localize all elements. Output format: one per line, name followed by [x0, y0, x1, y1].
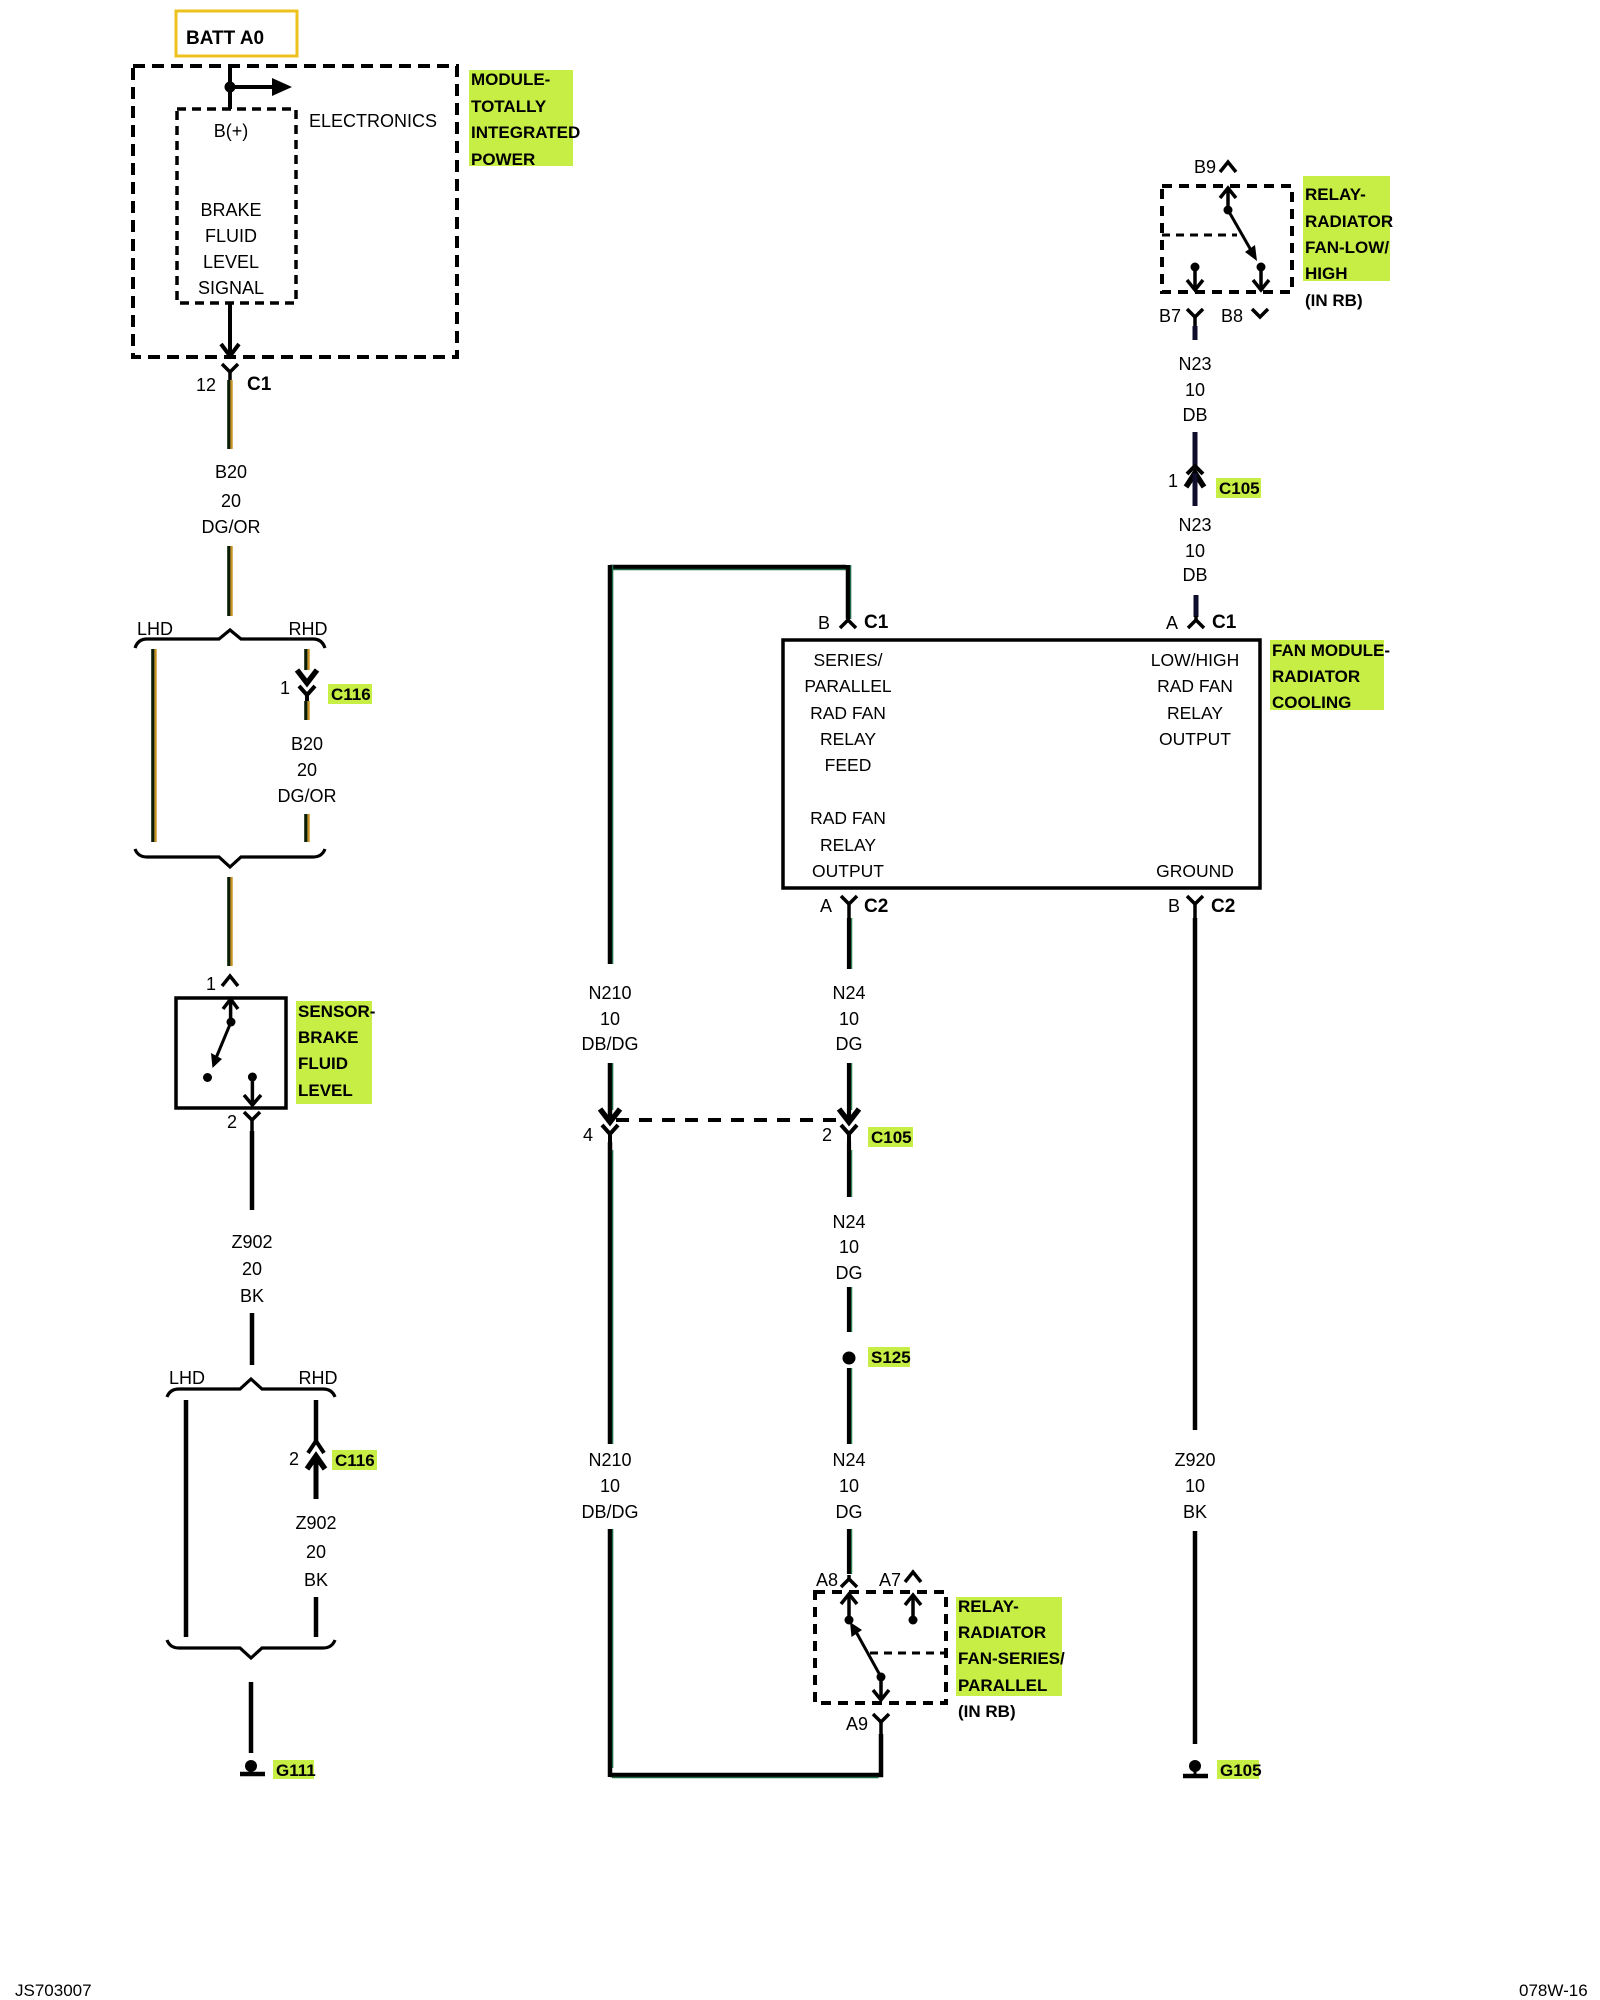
- connector C116 pin 2: [289, 1441, 377, 1499]
- svg-text:10: 10: [1185, 541, 1205, 561]
- connector C1 pin B of fan module: [818, 612, 889, 633]
- svg-text:FLUID: FLUID: [205, 226, 257, 246]
- svg-text:MODULE-: MODULE-: [471, 70, 550, 89]
- svg-text:20: 20: [221, 491, 241, 511]
- wire segment: [250, 1313, 255, 1365]
- wire Z902 20 BK: [250, 1131, 255, 1210]
- wire N23 segment: [1193, 432, 1198, 466]
- svg-text:1: 1: [206, 974, 216, 994]
- svg-text:PARALLEL: PARALLEL: [804, 676, 891, 696]
- svg-text:FAN-SERIES/: FAN-SERIES/: [958, 1649, 1065, 1668]
- svg-text:DG: DG: [836, 1502, 863, 1522]
- svg-text:BK: BK: [304, 1570, 328, 1590]
- svg-text:B7: B7: [1159, 306, 1181, 326]
- label RELAY-RADIATOR FAN-LOW/HIGH: [1303, 176, 1393, 310]
- svg-text:4: 4: [583, 1125, 593, 1145]
- svg-text:1: 1: [280, 678, 290, 698]
- connector pin 4: [583, 1109, 620, 1145]
- wire N24 10 DG: [849, 1142, 852, 1197]
- LHD / RHD split brace: [135, 619, 328, 648]
- svg-text:B: B: [818, 613, 830, 633]
- svg-text:B20: B20: [215, 462, 247, 482]
- svg-text:DB/DG: DB/DG: [581, 1502, 638, 1522]
- svg-text:ELECTRONICS: ELECTRONICS: [309, 111, 437, 131]
- dashed tie line between connectors: [616, 1118, 843, 1122]
- svg-text:BRAKE: BRAKE: [298, 1028, 358, 1047]
- svg-text:OUTPUT: OUTPUT: [812, 861, 884, 881]
- relay contact to pin A9: [873, 1673, 889, 1701]
- svg-text:N210: N210: [588, 983, 631, 1003]
- svg-text:BATT A0: BATT A0: [186, 28, 264, 49]
- wire B20 continues: [227, 546, 230, 616]
- relay internal divider: [870, 1652, 946, 1655]
- svg-text:C2: C2: [1211, 896, 1235, 917]
- relay switch arm: [850, 1622, 881, 1677]
- svg-text:A7: A7: [879, 1570, 901, 1590]
- svg-text:LEVEL: LEVEL: [298, 1081, 353, 1100]
- merge brace: [135, 849, 325, 867]
- svg-text:B20: B20: [291, 734, 323, 754]
- svg-text:DB: DB: [1182, 565, 1207, 585]
- svg-text:RELAY-: RELAY-: [1305, 185, 1366, 204]
- svg-text:LOW/HIGH: LOW/HIGH: [1151, 650, 1239, 670]
- wire segment BK: [314, 1597, 319, 1637]
- connector C1 pin A of fan module: [1166, 612, 1237, 633]
- wire LHD branch BK: [184, 1400, 189, 1637]
- svg-text:(IN RB): (IN RB): [958, 1702, 1016, 1721]
- module U1 TIPM outer dashed box: [133, 66, 457, 357]
- connector C105 pin 2: [822, 1109, 913, 1147]
- label FAN MODULE-RADIATOR COOLING: [1270, 640, 1390, 712]
- svg-text:12: 12: [196, 375, 216, 395]
- label MODULE-TOTALLY INTEGRATED POWER: [469, 70, 580, 169]
- svg-text:FAN MODULE-: FAN MODULE-: [1272, 641, 1390, 660]
- label SENSOR-BRAKE FLUID LEVEL: [296, 1001, 375, 1104]
- svg-text:RELAY: RELAY: [820, 835, 876, 855]
- wire from BATT A0 into TIPM: [228, 66, 232, 109]
- svg-text:B8: B8: [1221, 306, 1243, 326]
- svg-text:2: 2: [822, 1125, 832, 1145]
- wire N23 segment to fan module: [1194, 595, 1199, 617]
- svg-text:POWER: POWER: [471, 150, 535, 169]
- svg-text:INTEGRATED: INTEGRATED: [471, 123, 580, 142]
- ground G105: [1183, 1760, 1262, 1780]
- svg-text:10: 10: [1185, 1476, 1205, 1496]
- LHD / RHD split brace lower: [167, 1368, 338, 1397]
- svg-text:RHD: RHD: [289, 619, 328, 639]
- svg-text:RHD: RHD: [299, 1368, 338, 1388]
- svg-text:OUTPUT: OUTPUT: [1159, 729, 1231, 749]
- svg-text:C1: C1: [1212, 612, 1237, 633]
- label RELAY-RADIATOR FAN-SERIES/PARALLEL: [956, 1597, 1065, 1721]
- svg-text:LHD: LHD: [169, 1368, 205, 1388]
- fuse BATT A0: [176, 11, 297, 56]
- wire segment to ground: [1193, 1531, 1198, 1744]
- svg-text:C105: C105: [1219, 479, 1260, 498]
- relay contact to pin B8: [1253, 267, 1269, 290]
- svg-text:N210: N210: [588, 1450, 631, 1470]
- svg-text:S125: S125: [871, 1348, 911, 1367]
- svg-text:N24: N24: [832, 983, 865, 1003]
- svg-text:N23: N23: [1178, 515, 1211, 535]
- svg-text:C105: C105: [871, 1128, 912, 1147]
- svg-text:078W-16: 078W-16: [1519, 1981, 1588, 2000]
- module internal dashed box BRAKE FLUID LEVEL SIGNAL: [177, 109, 296, 303]
- svg-text:C1: C1: [864, 612, 889, 633]
- svg-text:N24: N24: [832, 1212, 865, 1232]
- relay coil pin A8 arrow: [841, 1594, 857, 1625]
- relay internal divider: [1162, 234, 1237, 237]
- svg-text:DB/DG: DB/DG: [581, 1034, 638, 1054]
- svg-text:10: 10: [1185, 380, 1205, 400]
- svg-text:HIGH: HIGH: [1305, 264, 1348, 283]
- wire N24 10 DG: [849, 918, 852, 969]
- sensor switch contact upper: [223, 999, 238, 1027]
- svg-text:FLUID: FLUID: [298, 1054, 348, 1073]
- wire A9 to bottom rail: [610, 1734, 881, 1778]
- wire N24 segment: [849, 1287, 852, 1332]
- svg-text:FEED: FEED: [825, 755, 872, 775]
- svg-text:10: 10: [839, 1476, 859, 1496]
- svg-text:A8: A8: [816, 1570, 838, 1590]
- merge brace lower: [167, 1640, 335, 1658]
- wire N24 segment to relay: [849, 1529, 852, 1574]
- svg-text:10: 10: [600, 1476, 620, 1496]
- svg-text:C116: C116: [331, 685, 371, 704]
- svg-text:RAD FAN: RAD FAN: [1157, 676, 1233, 696]
- svg-text:RELAY: RELAY: [1167, 703, 1223, 723]
- svg-text:PARALLEL: PARALLEL: [958, 1676, 1047, 1695]
- svg-text:RELAY-: RELAY-: [958, 1597, 1019, 1616]
- connector pin 1 of sensor: [206, 974, 238, 994]
- connector C1 pin 12: [196, 364, 272, 395]
- svg-text:RADIATOR: RADIATOR: [1305, 212, 1393, 231]
- svg-text:BK: BK: [240, 1286, 264, 1306]
- wire N210 middle segment: [610, 1142, 613, 1444]
- wire N210 segment above pin 4: [610, 1063, 613, 1120]
- node junction dot: [225, 82, 236, 93]
- sensor switch contact lower right: [244, 1073, 261, 1106]
- connector C105 pin 1: [1168, 466, 1261, 506]
- connector C2 pin B of fan module: [1168, 896, 1235, 918]
- wire segment: [304, 814, 307, 842]
- wire N210 left rail lower: [610, 1529, 613, 1777]
- connector pin A8 of relay: [816, 1570, 857, 1590]
- svg-text:10: 10: [839, 1237, 859, 1257]
- svg-text:N23: N23: [1178, 354, 1211, 374]
- svg-text:2: 2: [289, 1449, 299, 1469]
- svg-text:C1: C1: [247, 374, 272, 395]
- svg-text:10: 10: [600, 1009, 620, 1029]
- svg-text:B(+): B(+): [214, 121, 249, 141]
- svg-text:DG/OR: DG/OR: [277, 786, 336, 806]
- svg-text:10: 10: [839, 1009, 859, 1029]
- svg-text:RADIATOR: RADIATOR: [1272, 667, 1360, 686]
- svg-text:Z902: Z902: [295, 1513, 336, 1533]
- svg-text:DB: DB: [1182, 405, 1207, 425]
- wire N24 segment: [849, 1063, 852, 1120]
- svg-text:GROUND: GROUND: [1156, 861, 1234, 881]
- svg-text:RADIATOR: RADIATOR: [958, 1623, 1046, 1642]
- connector pin B8 stub: [1221, 306, 1268, 326]
- wire RHD branch DG/OR: [304, 649, 307, 670]
- svg-text:BK: BK: [1183, 1502, 1207, 1522]
- sensor switch arm with arrow: [203, 1022, 231, 1082]
- wire B20 20 DG/OR below C116: [304, 701, 307, 720]
- relay coil pin B9 arrow: [1220, 188, 1236, 215]
- relay K2 RADIATOR FAN-SERIES/PARALLEL dashed box: [815, 1592, 946, 1703]
- svg-text:20: 20: [297, 760, 317, 780]
- wire N23 10 DB: [1193, 326, 1198, 340]
- svg-text:SENSOR-: SENSOR-: [298, 1002, 375, 1021]
- wire out of module to pin 12: [228, 303, 232, 353]
- wire merged DG/OR: [227, 877, 230, 966]
- wire Z920 10 BK: [1193, 918, 1198, 1430]
- svg-text:LHD: LHD: [137, 619, 173, 639]
- svg-text:DG/OR: DG/OR: [201, 517, 260, 537]
- wire N210 top rail to fan module: [610, 565, 851, 964]
- svg-text:DG: DG: [836, 1263, 863, 1283]
- svg-text:DG: DG: [836, 1034, 863, 1054]
- relay K1 RADIATOR FAN-LOW/HIGH dashed box: [1162, 186, 1292, 292]
- connector C116 pin 1: [280, 670, 372, 704]
- svg-text:TOTALLY: TOTALLY: [471, 97, 547, 116]
- sensor S1 BRAKE FLUID LEVEL box: [176, 998, 286, 1108]
- svg-text:A: A: [1166, 613, 1178, 633]
- svg-text:G111: G111: [276, 1761, 316, 1780]
- connector pin B9 stub: [1194, 157, 1236, 177]
- connector pin 2 of sensor: [227, 1112, 260, 1132]
- svg-text:LEVEL: LEVEL: [203, 252, 259, 272]
- wire arrow to other circuits: [230, 85, 276, 89]
- svg-text:Z920: Z920: [1174, 1450, 1215, 1470]
- svg-text:SIGNAL: SIGNAL: [198, 278, 264, 298]
- wire RHD branch BK: [314, 1400, 319, 1442]
- wire N24 segment below splice: [849, 1368, 852, 1444]
- connector pin A7 stub: [879, 1570, 921, 1590]
- svg-text:2: 2: [227, 1112, 237, 1132]
- relay contact pin A7: [905, 1595, 921, 1625]
- svg-text:COOLING: COOLING: [1272, 693, 1351, 712]
- svg-text:RAD FAN: RAD FAN: [810, 703, 886, 723]
- svg-text:C2: C2: [864, 896, 888, 917]
- svg-text:FAN-LOW/: FAN-LOW/: [1305, 238, 1389, 257]
- svg-text:20: 20: [242, 1259, 262, 1279]
- svg-text:A: A: [820, 896, 832, 916]
- splice S125: [843, 1347, 911, 1367]
- relay switch arm: [1228, 210, 1266, 272]
- svg-text:(IN RB): (IN RB): [1305, 291, 1363, 310]
- svg-text:1: 1: [1168, 471, 1178, 491]
- wire B20 20 DG/OR: [227, 380, 230, 449]
- wire LHD branch DG/OR: [151, 649, 154, 842]
- ground G111: [240, 1760, 316, 1780]
- svg-text:BRAKE: BRAKE: [200, 200, 261, 220]
- connector C2 pin A of fan module: [820, 896, 888, 918]
- svg-text:Z902: Z902: [231, 1232, 272, 1252]
- svg-text:SERIES/: SERIES/: [813, 650, 882, 670]
- relay contact pin B7: [1187, 263, 1203, 291]
- svg-text:A9: A9: [846, 1714, 868, 1734]
- connector pin A9 of relay: [846, 1714, 889, 1734]
- module FAN MODULE-RADIATOR COOLING box: [783, 640, 1260, 888]
- svg-text:RAD FAN: RAD FAN: [810, 808, 886, 828]
- svg-text:G105: G105: [1220, 1761, 1262, 1780]
- connector pin B7 of relay: [1159, 306, 1203, 326]
- svg-text:C116: C116: [335, 1451, 375, 1470]
- svg-text:JS703007: JS703007: [15, 1981, 92, 2000]
- svg-text:B9: B9: [1194, 157, 1216, 177]
- svg-text:RELAY: RELAY: [820, 729, 876, 749]
- svg-text:B: B: [1168, 896, 1180, 916]
- svg-text:N24: N24: [832, 1450, 865, 1470]
- svg-text:20: 20: [306, 1542, 326, 1562]
- wire to ground G111: [249, 1682, 254, 1753]
